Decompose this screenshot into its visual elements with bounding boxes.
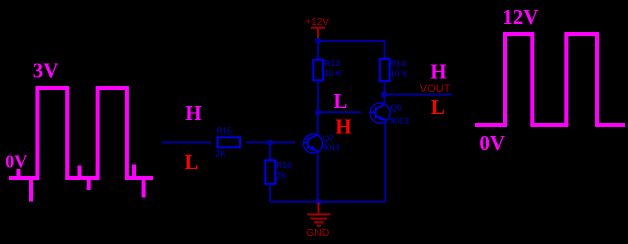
svg-text:H: H xyxy=(430,60,446,84)
junction Q7 collector node xyxy=(315,109,321,115)
wire junction to R16 xyxy=(269,143,271,161)
wire input to R15 xyxy=(162,141,211,143)
svg-text:Q6: Q6 xyxy=(390,102,402,112)
svg-text:VOUT: VOUT xyxy=(420,83,451,95)
wire Q6 collector xyxy=(383,95,385,105)
transistor Q7 xyxy=(304,133,341,153)
resistor R14 xyxy=(380,58,408,81)
wire Q7 emitter to ground rail xyxy=(317,151,319,202)
ground rail xyxy=(270,201,385,203)
svg-text:R16: R16 xyxy=(276,160,292,170)
wire R16 to ground rail xyxy=(269,184,271,202)
svg-text:H: H xyxy=(335,115,351,139)
svg-text:3V: 3V xyxy=(33,59,59,83)
resistor R16 xyxy=(265,160,292,184)
svg-text:10 K: 10 K xyxy=(324,68,342,78)
svg-text:R14: R14 xyxy=(390,58,406,68)
resistor R15 xyxy=(215,126,240,159)
svg-text:9013: 9013 xyxy=(323,142,340,152)
svg-text:R15: R15 xyxy=(216,126,232,136)
ground GND xyxy=(306,202,330,239)
svg-text:L: L xyxy=(431,95,445,119)
resistor R13 xyxy=(313,58,342,80)
svg-text:10 K: 10 K xyxy=(390,68,408,78)
wire Q6 emitter to ground rail xyxy=(384,121,386,202)
svg-text:2K: 2K xyxy=(276,170,287,180)
wire R15 to Q7 base xyxy=(246,141,295,143)
wire VOUT xyxy=(385,94,452,96)
junction ground xyxy=(315,199,322,206)
transistor Q6 xyxy=(370,102,409,125)
svg-text:9013: 9013 xyxy=(390,115,409,125)
svg-text:R13: R13 xyxy=(325,58,341,68)
svg-text:L: L xyxy=(333,89,347,113)
wire +12V distribution rail xyxy=(318,41,385,60)
wire R14 to Q6 collector node xyxy=(384,81,386,95)
svg-text:+12V: +12V xyxy=(305,17,329,28)
svg-text:L: L xyxy=(185,150,199,174)
svg-text:GND: GND xyxy=(306,227,330,239)
wire Q7 collector xyxy=(317,112,319,134)
svg-text:0V: 0V xyxy=(5,151,27,171)
junction below +12V xyxy=(315,38,321,44)
output waveform (12V square wave) xyxy=(475,34,625,125)
svg-text:0V: 0V xyxy=(479,131,505,155)
svg-text:12V: 12V xyxy=(502,5,538,29)
junction at R16 top xyxy=(267,140,273,146)
svg-text:H: H xyxy=(185,101,201,125)
svg-text:2K: 2K xyxy=(215,149,226,159)
junction Q6 collector node xyxy=(381,91,387,97)
power port +12V xyxy=(305,17,329,39)
wire R13 to Q7 collector node xyxy=(317,81,319,113)
input waveform (3V square wave) xyxy=(9,88,153,202)
wire Q7 collector node to Q6 base xyxy=(318,111,361,113)
